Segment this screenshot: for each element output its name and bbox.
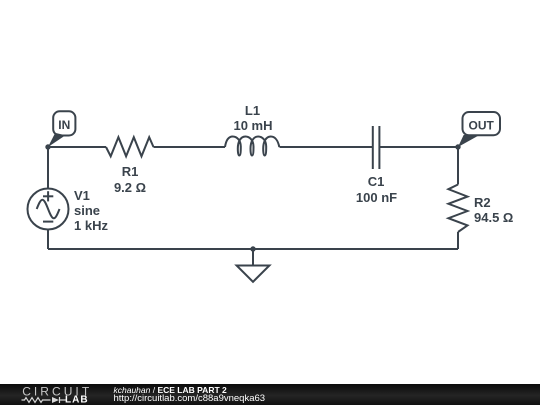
svg-text:L1: L1 bbox=[245, 103, 260, 118]
svg-text:LAB: LAB bbox=[65, 395, 89, 405]
svg-text:R1: R1 bbox=[122, 164, 139, 179]
svg-text:10 mH: 10 mH bbox=[233, 118, 272, 133]
svg-text:100 nF: 100 nF bbox=[356, 190, 397, 205]
svg-text:9.2 Ω: 9.2 Ω bbox=[114, 180, 146, 195]
svg-text:OUT: OUT bbox=[469, 119, 495, 133]
svg-text:C1: C1 bbox=[368, 174, 385, 189]
svg-text:R2: R2 bbox=[474, 195, 491, 210]
svg-text:94.5 Ω: 94.5 Ω bbox=[474, 210, 513, 225]
